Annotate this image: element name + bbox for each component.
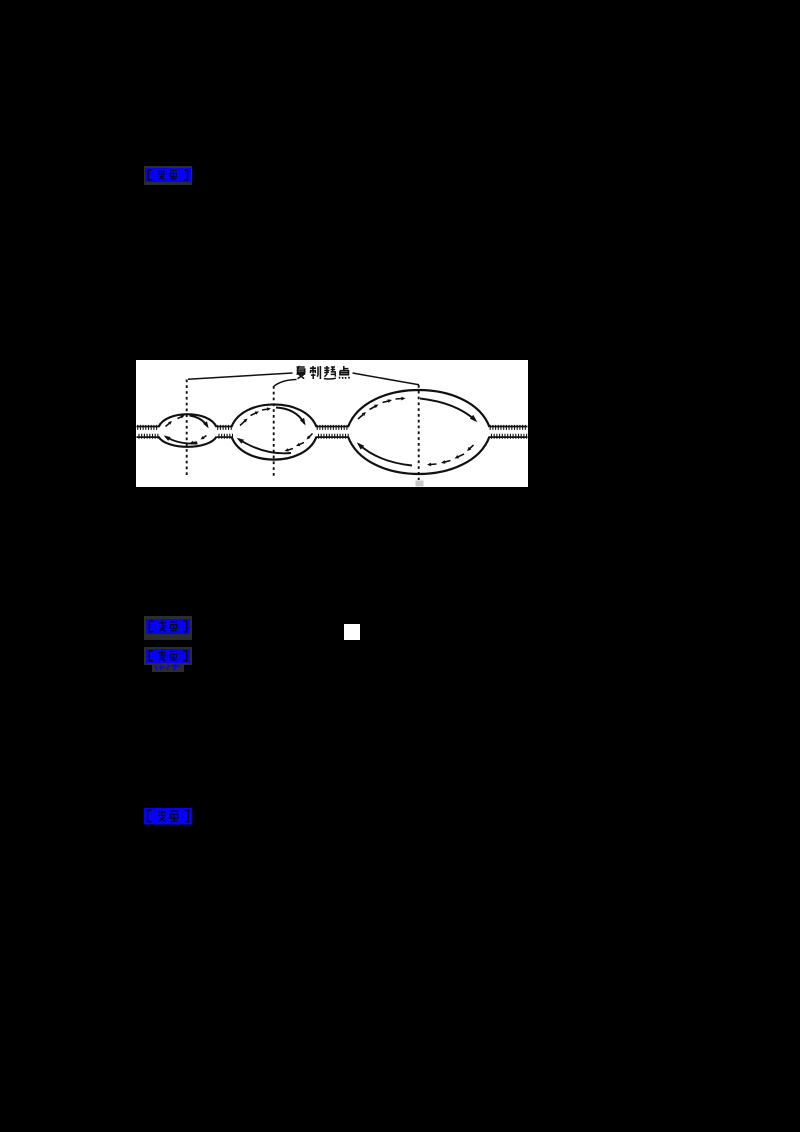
blue section label 4 (【点评】) [144,808,192,825]
bubble1 bottom small arrow near origin [192,441,197,444]
dashed origin line through bubble 1 [186,379,188,478]
blue section label 3 (【解答】) [144,647,192,665]
DNA replication diagram panel [136,360,528,488]
bubble1 top small arrow near origin [178,416,182,418]
replication bubble 1 (small) [159,414,217,427]
replication bubble 3 (large) [348,390,490,427]
white highlighted square (answer mark) [344,624,360,640]
bubble1 bottom lagging-strand small arrow [203,435,207,438]
grey dash remnant below bubble 3 [416,480,424,486]
pointer line to bubble 3 origin [353,373,420,385]
diagram background (white panel) [136,360,528,488]
bubble3 top lagging small arrow a [358,414,364,419]
bubble3 bottom lagging small arrow a [469,445,473,449]
bubble3 bottom lagging small arrow d [430,463,436,466]
replication bubble 2 (medium) [232,404,317,427]
bubble3 bottom leading curved arrow [359,444,413,466]
bubble2 top lagging small arrow b [251,412,257,415]
bubble2 top lagging small arrow a [240,420,245,425]
bubble3 top lagging small arrow b [370,406,376,410]
bubble3 top leading curved arrow [420,398,476,420]
bubble3 top lagging small arrow c [383,400,390,402]
pointer line to bubble 1 origin [188,373,293,379]
bubble1 top lagging-strand small arrow [166,422,170,426]
bubble2 bottom leading curved arrow [239,439,292,453]
bubble2 bottom lagging small arrow c [287,448,293,450]
bubble2 bottom lagging small arrow b [299,442,304,444]
blue section label 2 (【分析】) [144,616,192,640]
blue text fragment under label 3 [152,664,184,672]
bubble3 bottom lagging small arrow c [444,460,451,462]
bubble1 top leading-strand curved arrow [190,415,208,426]
DNA duplex segment between bubble1 and bubble2 [217,425,233,427]
bubble2 top leading curved arrow [276,407,305,423]
bubble3 bottom lagging small arrow b [457,454,464,457]
bubble1 bottom leading-strand curved arrow [166,436,198,443]
bubble2 top lagging small arrow c [262,409,268,410]
bubble2 bottom lagging small arrow a [309,433,313,437]
bubble3 top lagging small arrow d [396,397,403,400]
dashed origin line through bubble 3 [418,385,420,480]
DNA duplex segment right end [489,425,528,427]
blue section label 1 (【考点】) [144,166,192,185]
DNA duplex segment left end [137,425,160,427]
label: 复制起点 (replication origin) [297,366,350,379]
pointer line to bubble 2 origin [274,379,297,386]
DNA duplex segment between bubble2 and bubble3 [316,425,349,427]
dashed origin line through bubble 2 [273,386,275,479]
